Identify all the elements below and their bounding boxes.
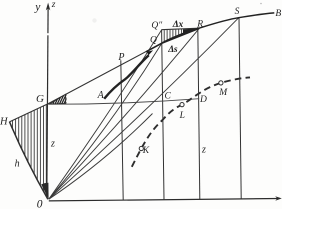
svg-text:B: B — [275, 9, 281, 19]
svg-text:z: z — [51, 0, 56, 10]
svg-text:S: S — [235, 7, 240, 17]
svg-text:0: 0 — [37, 199, 43, 209]
svg-text:P: P — [117, 52, 124, 63]
svg-text:G: G — [36, 93, 44, 105]
svg-text:h: h — [15, 159, 20, 170]
svg-text:H: H — [0, 117, 9, 128]
svg-text:A: A — [97, 90, 105, 101]
svg-text:C: C — [165, 92, 172, 102]
svg-text:Q″: Q″ — [151, 21, 163, 31]
svg-text:Δs: Δs — [167, 45, 178, 55]
svg-text:z: z — [201, 145, 206, 156]
svg-text:D: D — [199, 95, 207, 105]
svg-text:Q: Q — [150, 35, 157, 45]
svg-text:M: M — [218, 88, 228, 98]
svg-text:y: y — [34, 1, 41, 13]
svg-text:z: z — [50, 138, 55, 149]
svg-text:R: R — [196, 19, 203, 29]
svg-text:K: K — [142, 146, 150, 156]
svg-text:Δx: Δx — [172, 20, 184, 30]
svg-text:L: L — [179, 111, 185, 121]
